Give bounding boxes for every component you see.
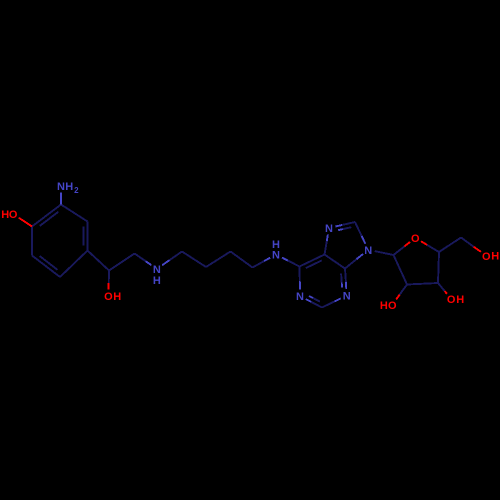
- svg-text:O: O: [9, 209, 18, 221]
- svg-text:2: 2: [74, 186, 79, 195]
- svg-text:O: O: [482, 251, 491, 263]
- svg-text:N: N: [343, 291, 351, 303]
- svg-text:N: N: [272, 250, 280, 262]
- svg-text:H: H: [456, 294, 464, 306]
- svg-text:H: H: [153, 275, 161, 287]
- svg-text:N: N: [57, 181, 65, 193]
- svg-text:N: N: [325, 223, 333, 235]
- svg-text:H: H: [65, 181, 73, 193]
- svg-text:H: H: [380, 300, 388, 312]
- svg-text:O: O: [104, 291, 113, 303]
- svg-text:H: H: [491, 251, 499, 263]
- svg-text:O: O: [388, 300, 397, 312]
- svg-text:N: N: [364, 245, 372, 257]
- svg-text:O: O: [447, 294, 456, 306]
- svg-text:O: O: [411, 233, 420, 245]
- svg-text:N: N: [296, 291, 304, 303]
- svg-text:H: H: [113, 291, 121, 303]
- svg-text:H: H: [272, 239, 280, 251]
